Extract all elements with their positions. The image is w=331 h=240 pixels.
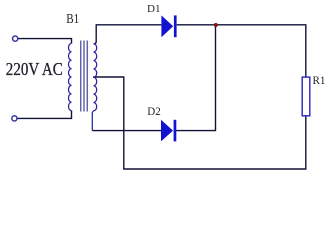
svg-text:220V AC: 220V AC [6, 59, 63, 79]
svg-text:D1: D1 [147, 4, 161, 15]
svg-text:R1: R1 [313, 73, 326, 87]
svg-text:D2: D2 [147, 106, 161, 118]
svg-text:B1: B1 [66, 11, 79, 26]
